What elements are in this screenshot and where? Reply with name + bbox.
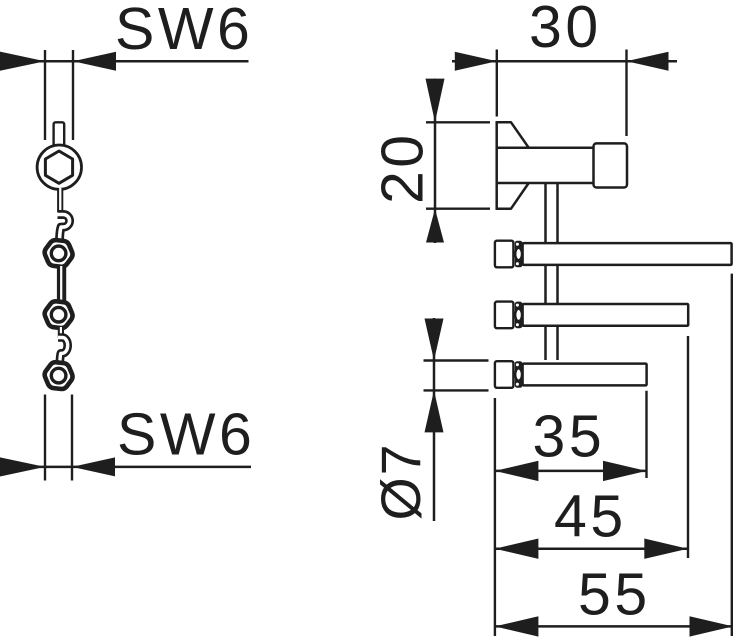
svg-text:45: 45 [554, 484, 627, 550]
svg-text:SW6: SW6 [117, 402, 255, 468]
svg-text:20: 20 [370, 131, 436, 204]
svg-text:35: 35 [533, 404, 606, 470]
svg-text:55: 55 [578, 562, 651, 628]
svg-text:Ø7: Ø7 [370, 442, 432, 520]
svg-text:30: 30 [529, 0, 602, 60]
svg-text:SW6: SW6 [115, 0, 253, 62]
